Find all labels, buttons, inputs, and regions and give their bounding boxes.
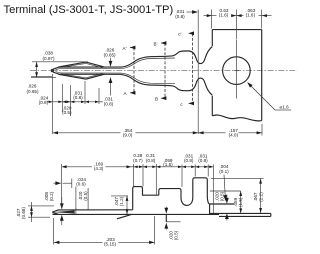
carrier strip bottom — [219, 215, 271, 217]
dim .169 (4.3) — [62, 166, 132, 168]
carrier top edge — [212, 29, 261, 31]
section A-A' — [133, 48, 135, 93]
svg-text:.026: .026 — [28, 84, 37, 89]
pin chamfer bulge upper — [59, 62, 105, 67]
svg-text:(0.8): (0.8) — [198, 158, 208, 163]
svg-text:cʹ: cʹ — [178, 31, 181, 37]
dim .203 (5.15) — [54, 241, 155, 243]
extension line carrier left — [211, 10, 213, 29]
svg-text:(4.3): (4.3) — [94, 166, 104, 171]
flare top edge — [122, 51, 190, 67]
svg-text:(0.65): (0.65) — [104, 53, 116, 58]
svg-text:(0.8): (0.8) — [175, 14, 185, 19]
svg-text:(0.6): (0.6) — [76, 182, 86, 187]
svg-text:(0.5): (0.5) — [174, 230, 179, 240]
tip wedge — [53, 211, 74, 214]
svg-text:(0.8): (0.8) — [104, 102, 114, 107]
dim .157 (4.0) — [198, 132, 262, 134]
svg-text:(0.1): (0.1) — [219, 169, 229, 174]
svg-text:(0.8): (0.8) — [146, 158, 156, 163]
svg-text:(0.65): (0.65) — [26, 89, 38, 94]
long extension line at notch — [197, 10, 199, 135]
drop from shelf to bar — [209, 204, 211, 214]
dim .063 (1.6) second — [244, 8, 259, 17]
hole center tick — [234, 70, 239, 72]
svg-text:(1.6): (1.6) — [246, 13, 256, 18]
svg-text:(0.5): (0.5) — [220, 191, 225, 201]
leader dia 1.6 — [248, 83, 276, 111]
svg-text:(1.2): (1.2) — [119, 196, 124, 206]
carrier right edge — [261, 30, 263, 121]
pin tip blob — [51, 69, 54, 72]
dim 0.63 (1.6) first — [204, 15, 272, 17]
wing 1 (wire barrel) — [133, 187, 159, 210]
flare bottom edge — [122, 75, 190, 91]
svg-text:(1.6): (1.6) — [219, 13, 229, 18]
svg-text:(5.15): (5.15) — [104, 242, 116, 247]
carrier left edge upper — [211, 30, 213, 46]
hole vertical centerline — [235, 40, 237, 99]
svg-text:(0.8): (0.8) — [73, 95, 83, 100]
pin flat upper face — [53, 67, 122, 69]
svg-text:(0.68): (0.68) — [21, 207, 26, 219]
section C-C' — [192, 33, 194, 103]
lance flap 2 — [165, 214, 167, 221]
svg-text:(0.6): (0.6) — [39, 100, 49, 105]
lance flap 1 — [117, 214, 132, 218]
pin chamfer bulge lower — [59, 74, 105, 79]
tick on bar — [75, 209, 77, 215]
svg-text:(9.0): (9.0) — [123, 133, 133, 138]
svg-text:(0.2): (0.2) — [49, 191, 54, 201]
pin flat lower face — [53, 72, 122, 74]
svg-text:Bʹ: Bʹ — [154, 40, 158, 46]
shelf behind loop — [210, 203, 234, 205]
chain dimension line — [47, 101, 104, 103]
tip chamfer bottom — [52, 212, 58, 214]
svg-text:B: B — [155, 97, 158, 102]
svg-text:(4.0): (4.0) — [229, 133, 239, 138]
svg-text:(0.8): (0.8) — [184, 158, 194, 163]
tip chamfer top — [52, 210, 58, 212]
carrier left edge lower — [211, 96, 213, 116]
extension line hole center top — [235, 10, 237, 40]
svg-text:(1.5): (1.5) — [163, 162, 173, 167]
svg-text:(0.7): (0.7) — [133, 158, 143, 163]
svg-text:Aʹ: Aʹ — [123, 45, 127, 51]
svg-text:A: A — [123, 91, 127, 96]
dim .354 (9.0) — [53, 132, 199, 134]
svg-text:Terminal (JS-3001-T, JS-3001-T: Terminal (JS-3001-T, JS-3001-TP) — [4, 4, 174, 16]
insulation barrel loop — [193, 178, 210, 204]
svg-text:.038: .038 — [44, 51, 53, 56]
svg-text:(0.97): (0.97) — [42, 56, 54, 61]
top notch curve to carrier — [189, 47, 212, 64]
carrier strip right end — [270, 213, 272, 216]
svg-text:(0.5): (0.5) — [83, 191, 88, 201]
wing 2 — [159, 180, 193, 206]
extension lines under pin — [52, 74, 54, 134]
extension line carrier right top — [261, 10, 263, 29]
centerline — [30, 70, 297, 72]
pilot hole — [223, 57, 251, 85]
carrier strip edge-on top — [210, 212, 271, 214]
bottom notch curve to carrier — [189, 78, 212, 95]
leader line .026 left — [31, 76, 52, 78]
bar top edge — [58, 209, 133, 211]
svg-text:c: c — [180, 102, 183, 107]
svg-text:⌀1.6: ⌀1.6 — [280, 104, 290, 109]
chain line bottom view — [132, 166, 214, 168]
section B-B' — [164, 43, 166, 98]
bar bottom edge — [53, 213, 220, 215]
carrier wavy bottom break line — [212, 115, 261, 121]
